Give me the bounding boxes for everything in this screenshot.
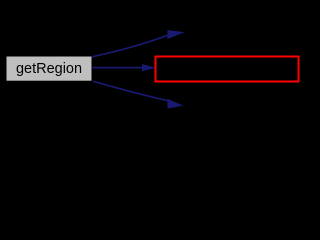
svg-text:getRegion: getRegion (16, 61, 82, 77)
